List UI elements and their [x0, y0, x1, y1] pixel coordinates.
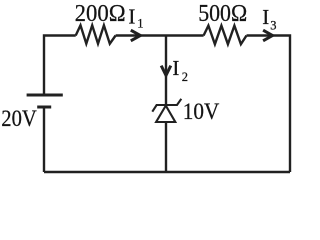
- wire: bottom return: [44, 171, 290, 173]
- zener diode D1: cathode bar with bent ends: [152, 99, 181, 112]
- svg-text:2: 2: [182, 70, 188, 84]
- current arrow I1: [131, 30, 141, 41]
- svg-text:3: 3: [270, 18, 276, 32]
- wire: node A down to zener cathode: [165, 36, 167, 106]
- wire: battery + up to top-left corner and right to R1: [44, 36, 76, 96]
- zener diode D1: anode triangle: [156, 106, 175, 122]
- svg-text:10V: 10V: [183, 99, 220, 124]
- battery V1 (20V source): [27, 95, 63, 107]
- wire: battery - down to bottom-left corner: [43, 107, 45, 172]
- label: I1 current: [128, 4, 143, 30]
- svg-text:20V: 20V: [1, 106, 37, 131]
- label: I3 current: [262, 5, 276, 32]
- current arrow I3: [263, 30, 272, 41]
- wire: R2 to top-right corner and down right side: [247, 36, 291, 173]
- svg-text:I: I: [262, 5, 269, 29]
- label: I2 current: [172, 56, 188, 84]
- svg-text:1: 1: [137, 16, 143, 30]
- resistor R2 500Ω: [204, 26, 247, 45]
- wire: R1 to node A: [116, 34, 166, 36]
- current arrow I2: [161, 66, 171, 76]
- svg-text:I: I: [172, 56, 179, 80]
- svg-text:500Ω: 500Ω: [198, 1, 247, 27]
- resistor R1 200Ω: [76, 25, 116, 43]
- svg-text:I: I: [128, 4, 135, 28]
- wire: zener anode down to bottom wire: [165, 122, 167, 172]
- svg-text:200Ω: 200Ω: [75, 1, 126, 27]
- wire: node A to R2: [166, 34, 204, 36]
